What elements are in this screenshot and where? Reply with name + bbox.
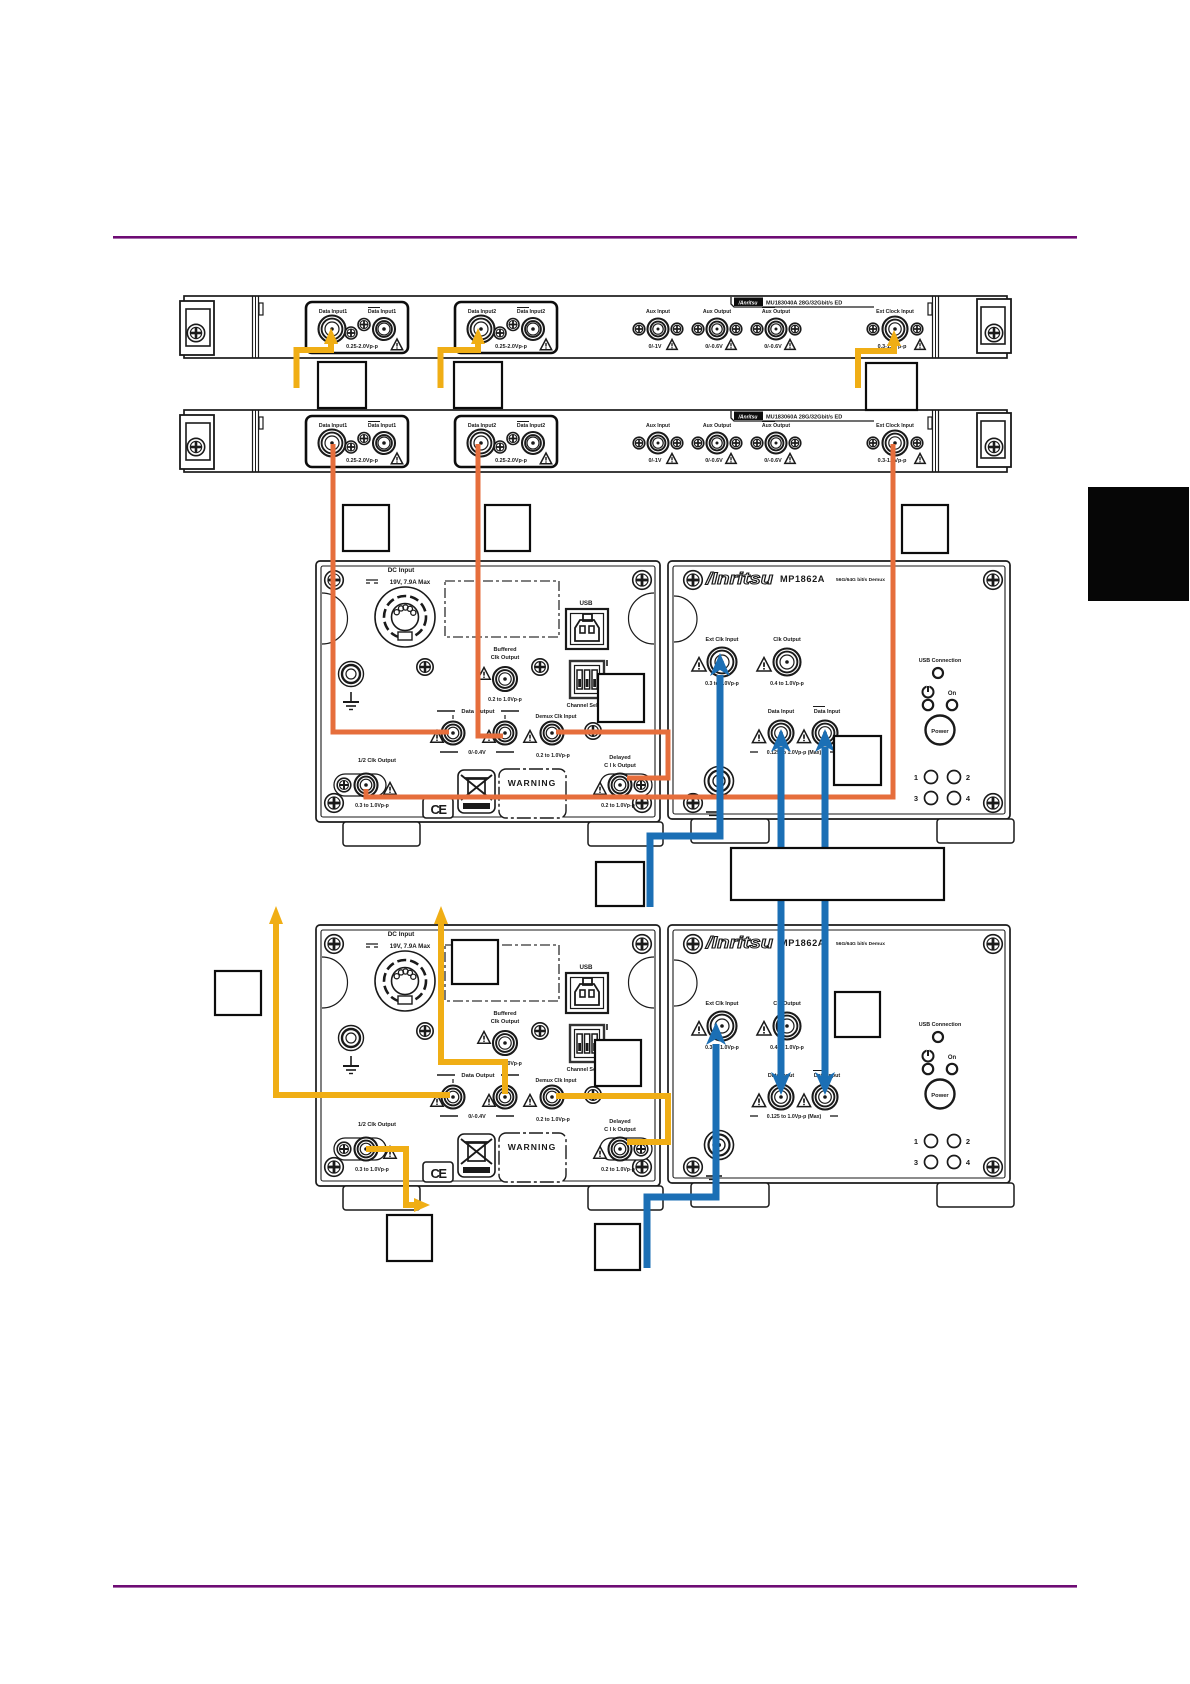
svg-text:Delayed: Delayed: [609, 1119, 631, 1125]
svg-text:Clk Output: Clk Output: [491, 1019, 520, 1025]
svg-text:0.2 to 1.0Vp-p: 0.2 to 1.0Vp-p: [536, 1117, 570, 1123]
svg-text:19V, 7.9A Max: 19V, 7.9A Max: [390, 943, 431, 950]
svg-text:Buffered: Buffered: [494, 647, 518, 653]
CE mark (pair 1 left unit): [423, 798, 453, 818]
connector group Data Input2 (panel B): [455, 416, 557, 467]
DC Input connector (pair 1): [366, 567, 435, 647]
connector group Data Input1 (panel A): [306, 302, 408, 353]
spare connector (pair 2 right unit): [705, 1131, 734, 1160]
Delayed Clk Output connector (pair 1): [594, 755, 652, 809]
yellow cable into Data Input1 of panel A: [297, 328, 339, 388]
unit feet (pair 2 left unit): [343, 1186, 663, 1210]
svg-text:WARNING: WARNING: [508, 1142, 557, 1152]
connector group Aux-bar Output (panel A): [751, 308, 801, 351]
svg-text:Aux Output: Aux Output: [762, 309, 791, 315]
svg-text:USB Connection: USB Connection: [919, 1022, 962, 1028]
chapter side tab: [1088, 487, 1189, 601]
connector group Aux Input (panel B): [633, 423, 683, 464]
svg-text:Data Input2: Data Input2: [468, 309, 496, 315]
svg-text:0/-1V: 0/-1V: [649, 458, 662, 464]
unit feet (pair 1 right unit): [691, 819, 1014, 843]
svg-text:On: On: [948, 691, 957, 697]
unit feet (pair 2 right unit): [691, 1183, 1014, 1207]
svg-text:0.25-2.0Vp-p: 0.25-2.0Vp-p: [495, 344, 527, 350]
orange cable panel B Data Input2 to Data Output 2: [478, 444, 503, 736]
svg-text:0/-0.4V: 0/-0.4V: [468, 1114, 486, 1120]
MP1861A unit body (pair 1): [316, 561, 660, 822]
svg-text:USB: USB: [579, 964, 593, 971]
svg-text:WARNING: WARNING: [508, 778, 557, 788]
corner screws (pair 1 right unit): [684, 571, 1003, 813]
wide callout box between pairs: [731, 848, 944, 900]
svg-text:Data Output: Data Output: [461, 1073, 494, 1079]
panel MU183060A Anritsu name plate: [731, 411, 874, 421]
Data Input connectors (pair 1 right unit): [750, 707, 840, 757]
ground mark (pair 2 right unit): [706, 1176, 722, 1180]
svg-text:CE: CE: [430, 1166, 447, 1181]
svg-text:Aux Input: Aux Input: [646, 309, 670, 315]
svg-text:0.25-2.0Vp-p: 0.25-2.0Vp-p: [495, 458, 527, 464]
callout box left of big label box: [596, 862, 644, 906]
orange cable panel B Data Input1 to Data Output 1: [333, 444, 449, 732]
yellow cable from Data Output 1 (pair 2) upward: [269, 906, 450, 1095]
Demux Clk Input connector (pair 1): [524, 714, 577, 759]
svg-text:Aux Output: Aux Output: [703, 423, 732, 429]
orange loopback Demux Clk Input to Delayed Clk Output (pair 1): [556, 732, 668, 778]
1/2 Clk Output connector (pair 1): [334, 758, 396, 809]
svg-text:0.2 to 1.0Vp-p: 0.2 to 1.0Vp-p: [601, 803, 635, 809]
svg-text:Ext Clk Input: Ext Clk Input: [706, 637, 739, 643]
bottom horizontal rule: [113, 1585, 1077, 1588]
svg-text:Aux Output: Aux Output: [762, 423, 791, 429]
svg-text:0.3 to 1.0Vp-p: 0.3 to 1.0Vp-p: [355, 803, 389, 809]
svg-text:0.125 to 1.0Vp-p (Max): 0.125 to 1.0Vp-p (Max): [767, 750, 822, 756]
svg-text:C l k Output: C l k Output: [604, 1127, 636, 1133]
svg-text:Delayed: Delayed: [609, 755, 631, 761]
panel MU183040A right mounting bracket: [977, 299, 1011, 353]
svg-text:0/-0.6V: 0/-0.6V: [764, 344, 782, 350]
svg-text:0.2 to 1.0Vp-p: 0.2 to 1.0Vp-p: [601, 1167, 635, 1173]
svg-text:Demux Clk Input: Demux Clk Input: [536, 1078, 577, 1084]
connector group Aux Output (panel A): [692, 309, 742, 350]
svg-text:Data Input2: Data Input2: [517, 423, 545, 429]
corner screws (pair 2 right unit): [684, 935, 1003, 1177]
callout box at Channel Select (pair 1): [598, 674, 644, 722]
yellow loopback Demux Clk Input to Delayed Clk Output (pair 2): [556, 1096, 668, 1142]
panel MU183060A right mounting bracket: [977, 413, 1011, 467]
callout box under panel A Data Input2: [454, 362, 502, 408]
ground terminal (pair 1 left unit): [339, 662, 364, 710]
svg-text:0.4 to 1.0Vp-p: 0.4 to 1.0Vp-p: [770, 681, 804, 687]
svg-text:0.25-2.0Vp-p: 0.25-2.0Vp-p: [346, 458, 378, 464]
svg-text:Clk Output: Clk Output: [773, 1001, 801, 1007]
svg-text:MP1862A: MP1862A: [780, 938, 825, 949]
panel screws (pair 2 left unit): [417, 1023, 601, 1103]
corner screws (pair 1 left unit): [325, 571, 652, 813]
svg-text:56G/64G bit/s Demux: 56G/64G bit/s Demux: [836, 941, 885, 947]
callout box at Data Input (pair 1 demux): [834, 736, 881, 785]
svg-text:0.2 to 1.0Vp-p: 0.2 to 1.0Vp-p: [488, 697, 522, 703]
yellow cable from 1/2 Clk Output (pair 2) down right: [366, 1149, 430, 1212]
CE mark (pair 2 left unit): [423, 1162, 453, 1182]
blue cable into Ext Clk Input (pair 1 demux): [650, 653, 730, 907]
svg-text:/Anritsu: /Anritsu: [738, 300, 758, 306]
yellow cable into Data Input2 of panel A: [441, 328, 486, 388]
unit feet (pair 1 left unit): [343, 822, 663, 846]
Anritsu logo MP1862A (pair 1): [705, 569, 885, 588]
power standby indicators (pair 1): [923, 685, 958, 710]
svg-text:0/-0.4V: 0/-0.4V: [468, 750, 486, 756]
connector group Ext Clock Input (panel B): [867, 423, 925, 464]
svg-text:1/2 Clk Output: 1/2 Clk Output: [358, 1122, 396, 1128]
USB port (pair 2 left unit): [566, 964, 608, 1013]
orange cable 1/2 Clk Output to panel B Ext Clock Input: [366, 444, 893, 797]
svg-text:Data Input1: Data Input1: [368, 309, 396, 315]
svg-text:0.3 to 1.0Vp-p: 0.3 to 1.0Vp-p: [355, 1167, 389, 1173]
svg-text:0.125 to 1.0Vp-p (Max): 0.125 to 1.0Vp-p (Max): [767, 1114, 822, 1120]
svg-text:USB: USB: [579, 600, 593, 607]
MP1862A unit body (pair 2): [668, 925, 1010, 1183]
svg-text:Data Input2: Data Input2: [468, 423, 496, 429]
top horizontal rule: [113, 236, 1077, 239]
svg-text:MU183060A 28G/32Gbit/s ED: MU183060A 28G/32Gbit/s ED: [766, 415, 842, 421]
svg-text:0/-0.6V: 0/-0.6V: [705, 458, 723, 464]
svg-text:C l k Output: C l k Output: [604, 763, 636, 769]
svg-text:0.2 to 1.0Vp-p: 0.2 to 1.0Vp-p: [536, 753, 570, 759]
svg-text:Buffered: Buffered: [494, 1011, 518, 1017]
panel MU183040A Anritsu name plate: [731, 297, 874, 307]
svg-text:2: 2: [966, 773, 970, 782]
Clk Output connector (pair 1 right unit): [757, 637, 804, 687]
blue cable into Ext Clk Input (pair 2 demux): [647, 1022, 726, 1268]
Delayed Clk Output connector (pair 2): [594, 1119, 652, 1173]
svg-text:56G/64G bit/s Demux: 56G/64G bit/s Demux: [836, 577, 885, 583]
panel screws (pair 1 left unit): [417, 659, 601, 739]
ground terminal (pair 2 left unit): [339, 1026, 364, 1074]
svg-text:Clk Output: Clk Output: [773, 637, 801, 643]
svg-text:CE: CE: [430, 802, 447, 817]
callout box under panel B Data Input2: [485, 505, 530, 551]
Buffered Clk Output connector (pair 2): [478, 1011, 522, 1067]
svg-text:Power: Power: [931, 729, 949, 735]
svg-text:0/-1V: 0/-1V: [649, 344, 662, 350]
svg-text:Ext Clock Input: Ext Clock Input: [876, 423, 914, 429]
svg-text:0/-0.6V: 0/-0.6V: [764, 458, 782, 464]
USB Connection indicator (pair 2): [919, 1022, 962, 1042]
Demux Clk Input connector (pair 2): [524, 1078, 577, 1123]
WARNING box (pair 2 left unit): [499, 1133, 566, 1182]
callout box under panel B Ext Clock Input: [902, 505, 948, 553]
channel indicators 1-4 (pair 2): [914, 1135, 971, 1169]
Data Input connectors (pair 2 right unit): [750, 1071, 840, 1121]
blue cable between Data Input connectors (channel 1): [771, 729, 791, 1095]
svg-text:0/-0.6V: 0/-0.6V: [705, 344, 723, 350]
equipment label dashed box (pair 1 left unit): [445, 581, 559, 637]
svg-text:Data Input1: Data Input1: [368, 423, 396, 429]
svg-text:0.25-2.0Vp-p: 0.25-2.0Vp-p: [346, 344, 378, 350]
equipment label dashed box (pair 2 left unit): [445, 945, 559, 1001]
Clk Output connector (pair 2 right unit): [757, 1001, 804, 1051]
callout box below pair 2 demux: [595, 1224, 640, 1270]
svg-text:MP1862A: MP1862A: [780, 574, 825, 585]
Channel Select DIP switch (pair 2): [567, 1024, 607, 1073]
svg-text:0.3 to 1.0Vp-p: 0.3 to 1.0Vp-p: [705, 1045, 739, 1051]
panel MU183060A left mounting bracket: [180, 415, 214, 469]
panel MU183040A left mounting bracket: [180, 301, 214, 355]
svg-text:Data Input: Data Input: [768, 709, 795, 715]
Channel Select DIP switch (pair 1): [567, 660, 607, 709]
DC Input connector (pair 2): [366, 931, 435, 1011]
connector group Aux Input (panel A): [633, 309, 683, 350]
svg-text:19V, 7.9A Max: 19V, 7.9A Max: [390, 579, 431, 586]
yellow cable from Data Output 2 (pair 2) upward: [434, 906, 505, 1094]
yellow cable into Ext Clock Input of panel A: [858, 330, 901, 388]
power standby indicators (pair 2): [923, 1049, 958, 1074]
callout box left of pair 2 unit: [215, 971, 261, 1015]
callout box at Channel Select (pair 2): [595, 1040, 641, 1086]
svg-text:/Anritsu: /Anritsu: [738, 414, 758, 420]
svg-text:Clk Output: Clk Output: [491, 655, 520, 661]
svg-text:3: 3: [914, 1158, 918, 1167]
svg-text:DC Input: DC Input: [388, 931, 415, 938]
svg-text:USB Connection: USB Connection: [919, 658, 962, 664]
svg-text:Aux Output: Aux Output: [703, 309, 732, 315]
svg-text:Ext Clock Input: Ext Clock Input: [876, 309, 914, 315]
Anritsu logo MP1862A (pair 2): [705, 933, 885, 952]
svg-text:Data Input: Data Input: [814, 709, 841, 715]
svg-text:Aux Input: Aux Input: [646, 423, 670, 429]
svg-text:/Inritsu: /Inritsu: [705, 569, 774, 588]
callout box under panel A Ext Clock Input: [866, 363, 917, 410]
callout box at Clk Output (pair 2 demux): [835, 992, 880, 1037]
svg-text:/Inritsu: /Inritsu: [705, 933, 774, 952]
Data Output connectors 1 and 2 (pair 2): [431, 1073, 519, 1120]
WEEE symbol (pair 1 left unit): [458, 770, 495, 813]
MP1862A unit body (pair 1): [668, 561, 1010, 819]
USB Connection indicator (pair 1): [919, 658, 962, 678]
svg-text:3: 3: [914, 794, 918, 803]
svg-text:Power: Power: [931, 1093, 949, 1099]
Data Output connectors 1 and 2 (pair 1): [431, 709, 519, 756]
ground mark (pair 1 right unit): [706, 812, 722, 816]
callout box under panel B Data Input1: [343, 505, 389, 551]
svg-text:1: 1: [914, 1137, 918, 1146]
svg-text:Data Input1: Data Input1: [319, 423, 347, 429]
Ext Clk Input connector (pair 2 right unit): [692, 1001, 739, 1051]
connector group Data Input2 (panel A): [455, 302, 557, 353]
1/2 Clk Output connector (pair 2): [334, 1122, 396, 1173]
callout box below 1/2 Clk Output (pair 2): [387, 1215, 432, 1261]
rack panel MU183060A body: [184, 410, 1007, 472]
MP1861A unit body (pair 2): [316, 925, 660, 1186]
svg-text:2: 2: [966, 1137, 970, 1146]
svg-text:Demux Clk Input: Demux Clk Input: [536, 714, 577, 720]
Power button (pair 1): [926, 716, 955, 745]
blue cable between Data Input-bar connectors (channel 2): [815, 729, 835, 1095]
corner screws (pair 2 left unit): [325, 935, 652, 1177]
callout box on pair 2 unit label area: [452, 940, 498, 984]
svg-text:On: On: [948, 1055, 957, 1061]
WEEE symbol (pair 2 left unit): [458, 1134, 495, 1177]
connector group Ext Clock Input (panel A): [867, 309, 925, 350]
Power button (pair 2): [926, 1080, 955, 1109]
svg-text:Data Input2: Data Input2: [517, 309, 545, 315]
connector group Data Input1 (panel B): [306, 416, 408, 467]
callout box under panel A Data Input1: [318, 362, 366, 408]
svg-text:Ext Clk Input: Ext Clk Input: [706, 1001, 739, 1007]
svg-text:MU183040A 28G/32Gbit/s ED: MU183040A 28G/32Gbit/s ED: [766, 301, 842, 307]
WARNING box (pair 1 left unit): [499, 769, 566, 818]
channel indicators 1-4 (pair 1): [914, 771, 971, 805]
svg-text:DC Input: DC Input: [388, 567, 415, 574]
svg-text:1: 1: [914, 773, 918, 782]
Buffered Clk Output connector (pair 1): [478, 647, 522, 703]
connector group Aux-bar Output (panel B): [751, 422, 801, 465]
USB port (pair 1 left unit): [566, 600, 608, 649]
svg-text:1/2 Clk Output: 1/2 Clk Output: [358, 758, 396, 764]
spare connector (pair 1 right unit): [705, 767, 734, 796]
connector group Aux Output (panel B): [692, 423, 742, 464]
svg-text:0.4 to 1.0Vp-p: 0.4 to 1.0Vp-p: [770, 1045, 804, 1051]
svg-text:Data Input1: Data Input1: [319, 309, 347, 315]
Ext Clk Input connector (pair 1 right unit): [692, 637, 739, 687]
rack panel MU183040A body: [184, 296, 1007, 358]
